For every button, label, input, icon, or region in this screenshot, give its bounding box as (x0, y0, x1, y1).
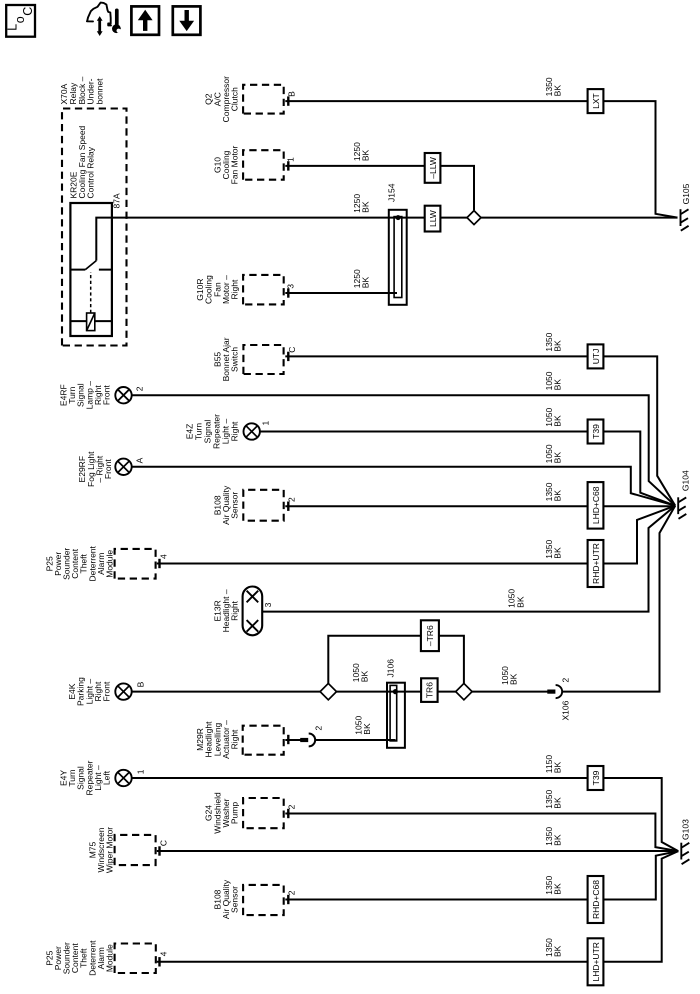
svg-text:LHD+UTR: LHD+UTR (591, 942, 601, 981)
wire E4K main run to X106 (132, 691, 548, 693)
svg-text:Right: Right (230, 279, 240, 299)
relay coil element (87, 313, 95, 331)
label 1050 BK M29R (354, 716, 373, 735)
svg-text:Sensor: Sensor (230, 492, 240, 519)
connector Q2 A/C Compressor Clutch (204, 76, 284, 122)
wire E4Y to G103 (132, 778, 679, 851)
icon up arrow button (131, 6, 159, 34)
inline connector LHD+C68 (588, 482, 604, 528)
wire P25 to G103 (157, 851, 679, 962)
label 1350 BK B108 (544, 482, 563, 501)
motor M75 Windscreen Wiper Motor (87, 827, 155, 873)
label KR20E Cooling Fan Speed Control Relay (69, 125, 96, 198)
terminal tick M75 (158, 846, 160, 855)
svg-text:BK: BK (553, 797, 563, 809)
wire G24 to G103 (285, 814, 678, 852)
inline connector UTJ (588, 344, 604, 368)
svg-text:4: 4 (159, 554, 169, 559)
svg-text:o: o (13, 16, 27, 23)
module P25 Power Sounder Content Theft Deterrent Alarm Module (G103) (44, 940, 156, 976)
wire B55 to G104 (285, 356, 675, 505)
svg-text:BK: BK (553, 762, 563, 774)
svg-text:BK: BK (553, 834, 563, 846)
splice J154 (389, 210, 407, 305)
ground G103 (681, 843, 689, 865)
svg-text:BK: BK (553, 379, 563, 391)
svg-text:Right: Right (230, 729, 240, 749)
icon down arrow button (173, 6, 201, 34)
svg-text:Front: Front (103, 459, 113, 479)
junction dot J154 bus (396, 215, 401, 220)
svg-text:BK: BK (360, 671, 370, 683)
svg-text:Pump: Pump (230, 802, 240, 824)
svg-text:87A: 87A (112, 193, 122, 208)
svg-text:LHD+C68: LHD+C68 (591, 486, 601, 524)
inline connector -TR6 (421, 620, 439, 651)
inline connector LHD+UTR (588, 938, 604, 985)
terminal tick P25 (158, 559, 160, 568)
icon LOC box (6, 5, 35, 37)
motor G10 Cooling Fan Motor (212, 145, 283, 184)
label 1350 BK Q2 (544, 77, 563, 96)
wire B108 to G103 (285, 851, 678, 899)
label 1050 BK E4Z (544, 408, 563, 427)
svg-text:Front: Front (102, 385, 112, 405)
terminal tick B108 (287, 502, 289, 511)
terminal tick Q2 (287, 96, 289, 105)
terminal tick G24 (287, 809, 289, 818)
connector X106 pin side (547, 689, 555, 693)
junction diamond E4K lower (456, 683, 472, 699)
svg-text:BK: BK (362, 723, 372, 735)
label 1350 BK B108 G103 (544, 876, 563, 895)
wire E29RF to G104 (132, 467, 676, 506)
label 1350 BK G24 (544, 790, 563, 809)
svg-text:T39: T39 (591, 424, 601, 439)
svg-text:Right: Right (230, 421, 240, 441)
wire G10R to splice J154 (285, 292, 397, 294)
svg-text:Module: Module (105, 550, 115, 578)
svg-text:BK: BK (553, 85, 563, 97)
lamp E4K Parking Light Right Front (67, 677, 132, 706)
terminal tick G10 (287, 161, 289, 170)
inline connector LXT (588, 89, 604, 113)
svg-text:BK: BK (553, 452, 563, 464)
svg-text:X106: X106 (561, 700, 571, 720)
svg-text:BK: BK (553, 490, 563, 502)
connector X106 socket arc (556, 685, 563, 698)
icon vehicle lift with wrench (87, 3, 124, 36)
svg-text:–TR6: –TR6 (425, 625, 435, 646)
inline connector RHD+UTR (588, 540, 604, 587)
svg-text:BK: BK (553, 415, 563, 427)
svg-text:B: B (286, 91, 296, 97)
svg-text:BK: BK (553, 883, 563, 895)
svg-text:RHD+C68: RHD+C68 (591, 880, 601, 919)
svg-text:C: C (21, 7, 35, 16)
svg-text:TR6: TR6 (425, 682, 435, 698)
splice J106 (387, 683, 405, 748)
svg-text:bonnet: bonnet (94, 78, 104, 105)
svg-text:Front: Front (102, 681, 112, 701)
wire B108 to G104 (285, 505, 675, 508)
terminal tick M29R (287, 735, 289, 744)
svg-text:BK: BK (508, 673, 518, 685)
svg-text:3: 3 (263, 602, 273, 607)
svg-text:Sensor: Sensor (230, 886, 240, 913)
svg-text:1: 1 (286, 157, 296, 162)
junction diamond E4K upper (320, 683, 336, 699)
label X70A Relay Block - Underbonnet (59, 76, 104, 104)
motor G10R Cooling Fan Motor Right (195, 275, 284, 305)
svg-text:BK: BK (360, 201, 370, 213)
inline connector RHD+C68 (588, 876, 604, 923)
lamp E4RF Turn Signal Lamp Right Front (59, 381, 132, 410)
svg-text:1: 1 (261, 421, 271, 426)
svg-text:C: C (159, 840, 169, 846)
wire E4Z to G104 (260, 432, 675, 506)
svg-text:G105: G105 (681, 183, 691, 204)
svg-text:G103: G103 (681, 819, 691, 840)
svg-text:2: 2 (561, 678, 571, 683)
label 1350 BK B55 (544, 332, 563, 351)
inline connector T39 (E4Y) (588, 766, 604, 790)
svg-text:Left: Left (102, 770, 112, 785)
label 1350 BK P25 G103 (544, 938, 563, 957)
pump G24 Windshield Washer Pump (204, 792, 284, 834)
svg-text:RHD+UTR: RHD+UTR (591, 543, 601, 584)
label 1050 BK E4RF (544, 371, 563, 390)
module P25 Power Sounder Content Theft Deterrent Alarm Module (G104) (44, 545, 155, 581)
wire M29R to connector (285, 739, 301, 741)
svg-text:G104: G104 (681, 470, 691, 491)
label 1350 BK M75 (544, 827, 563, 846)
ground G104 (678, 497, 686, 519)
svg-text:Wiper Motor: Wiper Motor (105, 827, 115, 873)
wire M29R to splice J106 (315, 739, 395, 741)
relay switch bar (70, 269, 112, 271)
svg-text:3: 3 (286, 284, 296, 289)
svg-text:–LLW: –LLW (428, 157, 438, 179)
lamp E29RF Fog Light Right Front (77, 451, 132, 487)
actuator M29R Headlight Levelling Actuator Right (195, 720, 284, 759)
label 1050 BK E13R (507, 589, 526, 608)
ground G105 (680, 209, 688, 231)
lamp E4Z Turn Signal Repeater Light Right (185, 414, 260, 449)
label 1250 BK bus (352, 194, 371, 213)
svg-text:Clutch: Clutch (230, 87, 240, 111)
lamp E4Y Turn Signal Repeater Light Left (59, 760, 132, 795)
svg-text:Control Relay: Control Relay (86, 146, 96, 198)
wire E4K after X106 to G104 (562, 506, 675, 692)
svg-text:2: 2 (287, 497, 297, 502)
wire G10 to bus diamond (285, 166, 474, 210)
svg-text:2: 2 (313, 726, 323, 731)
svg-text:J106: J106 (386, 659, 396, 678)
terminal tick B55 (287, 352, 289, 361)
svg-text:Module: Module (105, 944, 115, 972)
label 1350 BK P25 (544, 540, 563, 559)
wire E4K bypass branch through -TR6 (328, 636, 464, 684)
wire Q2 to G105 (285, 101, 677, 218)
lamp E13R Headlight Right (212, 587, 262, 636)
sensor B108 Air Quality Sensor (G103) (212, 879, 283, 919)
svg-text:Right: Right (230, 600, 240, 620)
relay coil bar (70, 320, 112, 322)
svg-text:2: 2 (135, 386, 145, 391)
label 1050 BK X106 segment (500, 666, 519, 685)
connector M29R pin side (300, 738, 308, 742)
svg-text:BK: BK (360, 149, 370, 161)
junction dot J106 (393, 689, 398, 694)
svg-text:C: C (287, 347, 297, 353)
svg-text:1: 1 (136, 769, 146, 774)
svg-text:BK: BK (553, 340, 563, 352)
inline connector T39 (588, 420, 604, 444)
connector M29R socket arc (309, 734, 315, 747)
sensor B108 Air Quality Sensor (G104) (212, 485, 283, 525)
label 1250 BK G10R (352, 269, 371, 288)
svg-text:L: L (6, 24, 20, 31)
relay switch arm (85, 261, 96, 270)
svg-text:B: B (136, 681, 146, 687)
svg-text:2: 2 (287, 890, 297, 895)
terminal tick P25 G103 (158, 957, 160, 966)
relay armature dashed link (90, 272, 92, 313)
svg-text:T39: T39 (591, 770, 601, 785)
svg-text:2: 2 (287, 804, 297, 809)
inline connector -LLW (425, 153, 441, 183)
wire E13R to G104 (262, 506, 675, 612)
svg-text:BK: BK (515, 596, 525, 608)
wire 87A ground bus to G105 (96, 218, 677, 261)
svg-text:BK: BK (553, 945, 563, 957)
svg-text:UTJ: UTJ (591, 349, 601, 365)
relay block X70A dashed enclosure (62, 109, 127, 346)
label 1250 BK G10 (352, 142, 371, 161)
svg-text:Fan Motor: Fan Motor (230, 145, 240, 184)
inline connector LLW (425, 206, 441, 232)
wire P25 to G104 (157, 506, 675, 564)
switch B55 Bonnet Ajar Switch (212, 337, 283, 381)
label 1050 BK E4K (351, 663, 370, 682)
junction diamond bus / G10 branch (467, 211, 481, 225)
svg-text:Switch: Switch (230, 347, 240, 372)
terminal tick B108 G103 (287, 895, 289, 904)
svg-text:A: A (135, 457, 145, 463)
terminal tick G10R (287, 288, 289, 297)
svg-text:4: 4 (159, 951, 169, 956)
svg-text:BK: BK (553, 547, 563, 559)
svg-text:LLW: LLW (428, 210, 438, 227)
svg-text:J154: J154 (387, 183, 397, 202)
wire M75 to G103 (157, 850, 679, 852)
inline connector TR6 (421, 678, 438, 702)
wire E4RF to G104 (132, 395, 676, 506)
svg-text:BK: BK (360, 277, 370, 289)
relay KR20E body (70, 203, 112, 336)
label 1150 BK E4Y (544, 755, 563, 774)
svg-text:LXT: LXT (591, 93, 601, 109)
label 1050 BK E29RF (544, 444, 563, 463)
